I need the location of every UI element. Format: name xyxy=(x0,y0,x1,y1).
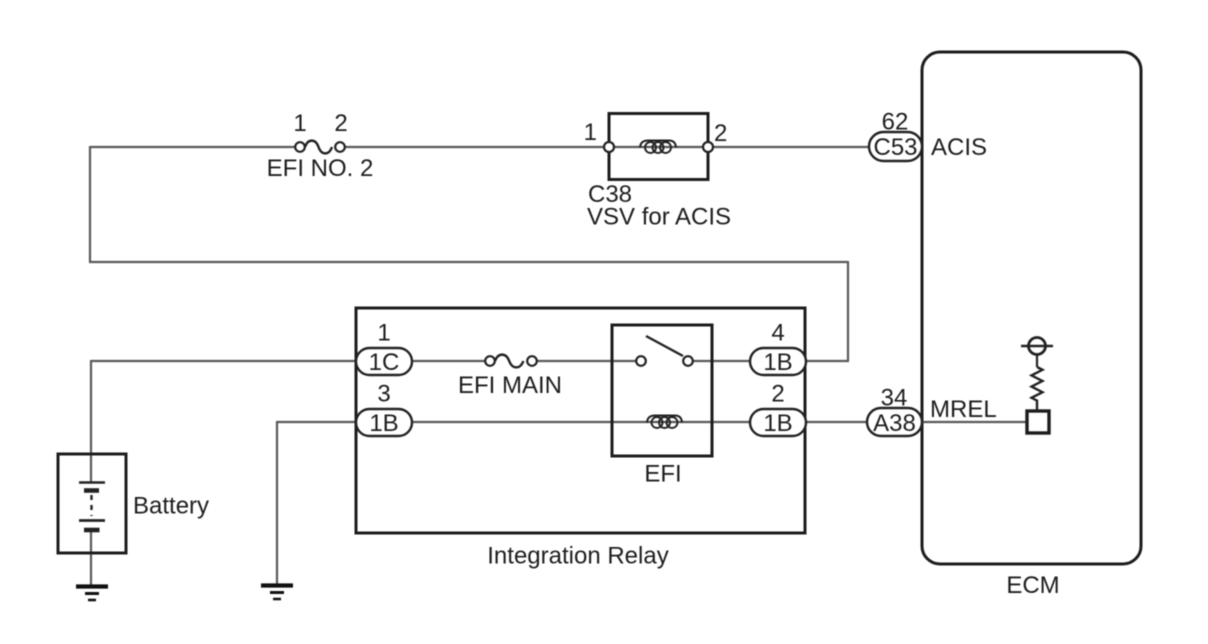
wire through VSV box xyxy=(609,146,708,148)
wire EFI MAIN to switch contact xyxy=(536,360,637,362)
wire switch to relay pin 4 oval xyxy=(692,360,750,362)
resistor zigzag xyxy=(1032,367,1043,411)
svg-text:1: 1 xyxy=(584,119,597,146)
VSV pin 1 terminal xyxy=(604,142,614,152)
wire battery top vertical xyxy=(90,360,92,483)
svg-text:Battery: Battery xyxy=(133,493,209,520)
svg-text:MREL: MREL xyxy=(930,396,997,423)
svg-text:1B: 1B xyxy=(763,410,792,437)
MREL terminal square xyxy=(1027,411,1049,433)
svg-text:Integration Relay: Integration Relay xyxy=(487,543,668,570)
ground below battery xyxy=(76,587,108,601)
svg-text:34: 34 xyxy=(881,385,908,412)
wire from VSV pin 2 to ECM connector C53 xyxy=(708,146,871,148)
svg-text:C53: C53 xyxy=(873,134,917,161)
VSV pin 2 terminal xyxy=(703,142,713,152)
wire A38 to MREL square inside ECM xyxy=(922,421,1028,423)
wire vertical down to relay pin 4 xyxy=(847,261,849,361)
svg-text:1: 1 xyxy=(377,320,390,347)
svg-text:62: 62 xyxy=(882,109,909,136)
svg-text:EFI NO. 2: EFI NO. 2 xyxy=(267,155,374,182)
svg-text:VSV for ACIS: VSV for ACIS xyxy=(587,204,731,231)
wire vertical left branch xyxy=(89,146,91,262)
relay coil xyxy=(647,416,682,429)
svg-text:ACIS: ACIS xyxy=(931,134,987,161)
MREL internal circuit: power circle xyxy=(1021,338,1053,368)
VSV coil xyxy=(640,141,676,154)
relay switch xyxy=(636,336,693,366)
svg-text:2: 2 xyxy=(714,120,727,147)
svg-text:1: 1 xyxy=(293,110,306,137)
relay pin 1 oval 1C xyxy=(356,348,412,375)
battery plates xyxy=(79,483,105,531)
connector C53 oval xyxy=(869,132,922,161)
wire A38 to MREL square xyxy=(921,421,1028,423)
wire battery to relay pin 1C xyxy=(91,360,356,362)
wire battery bottom to ground xyxy=(90,530,92,585)
relay pin 2 oval 1B xyxy=(750,409,806,436)
wire relay pin 4 to corner xyxy=(806,360,849,362)
fuse EFI NO. 2 xyxy=(295,141,345,154)
svg-text:EFI MAIN: EFI MAIN xyxy=(458,372,562,399)
svg-text:1C: 1C xyxy=(369,349,400,376)
svg-text:2: 2 xyxy=(334,110,347,137)
svg-text:1B: 1B xyxy=(763,349,792,376)
wire vertical pin3 ground drop xyxy=(276,421,278,584)
wire horizontal mid branch xyxy=(89,261,848,263)
wire top from left corner to fuse EFI NO.2 xyxy=(90,146,296,148)
svg-text:2: 2 xyxy=(771,381,784,408)
Integration Relay box xyxy=(356,308,805,533)
svg-text:A38: A38 xyxy=(873,410,916,437)
wire relay pin 3 to ground xyxy=(277,421,356,423)
svg-text:4: 4 xyxy=(771,320,784,347)
VSV for ACIS box C38 xyxy=(609,114,708,180)
relay inner box EFI xyxy=(612,325,712,456)
ECM box xyxy=(922,52,1141,564)
wire coil row pin 3 to pin 2 xyxy=(412,421,750,423)
svg-text:3: 3 xyxy=(377,381,390,408)
svg-text:1B: 1B xyxy=(369,410,398,437)
battery box xyxy=(58,454,126,553)
relay pin 3 oval 1B xyxy=(356,409,412,436)
svg-text:EFI: EFI xyxy=(644,461,681,488)
relay pin 4 oval 1B xyxy=(750,348,806,375)
connector A38 oval xyxy=(867,408,922,436)
ground below relay pin 3 xyxy=(261,586,293,600)
wire relay pin 2 to A38 xyxy=(806,421,869,423)
wire from fuse to VSV pin 1 xyxy=(344,146,609,148)
fuse EFI MAIN xyxy=(485,355,537,368)
wire 1C to EFI MAIN fuse xyxy=(412,360,486,362)
svg-text:ECM: ECM xyxy=(1006,572,1059,599)
